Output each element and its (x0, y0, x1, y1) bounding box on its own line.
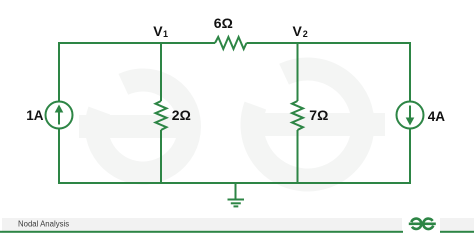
ground bars (228, 200, 245, 207)
arrow of source 4A (down) (406, 106, 415, 126)
ground stem (235, 183, 237, 199)
resistor R 6ohm (215, 37, 247, 49)
svg-text:2: 2 (303, 29, 308, 39)
wire node V2 lower (297, 130, 299, 183)
wire right upper (409, 42, 411, 102)
svg-text:V: V (293, 23, 303, 39)
wire left upper (58, 42, 60, 102)
wire node V1 upper (160, 43, 162, 101)
svg-text:1: 1 (163, 29, 168, 39)
wire left lower (58, 129, 60, 185)
current source I1 1A circle (46, 102, 73, 129)
svg-text:6Ω: 6Ω (214, 15, 233, 31)
watermark logo (79, 69, 385, 180)
svg-text:7Ω: 7Ω (309, 107, 328, 123)
footer bar (2, 218, 402, 231)
wire right lower (409, 129, 411, 185)
svg-text:1A: 1A (26, 108, 44, 123)
current source I2 4A circle (397, 102, 424, 129)
resistor R 2ohm (156, 101, 167, 130)
svg-text:4A: 4A (428, 109, 446, 124)
svg-text:2Ω: 2Ω (172, 107, 191, 123)
svg-text:Nodal Analysis: Nodal Analysis (18, 220, 69, 229)
wire top-left segment (59, 42, 215, 44)
resistor R 7ohm (292, 101, 303, 130)
wire node V2 upper (297, 43, 299, 101)
wire node V1 lower (160, 130, 162, 183)
wire bottom (58, 182, 411, 184)
svg-text:V: V (153, 23, 163, 39)
footer gfg logo (409, 219, 436, 229)
arrow of source 1A (up) (55, 105, 64, 125)
footer green rule (0, 231, 403, 233)
wire top-right segment (247, 42, 411, 44)
